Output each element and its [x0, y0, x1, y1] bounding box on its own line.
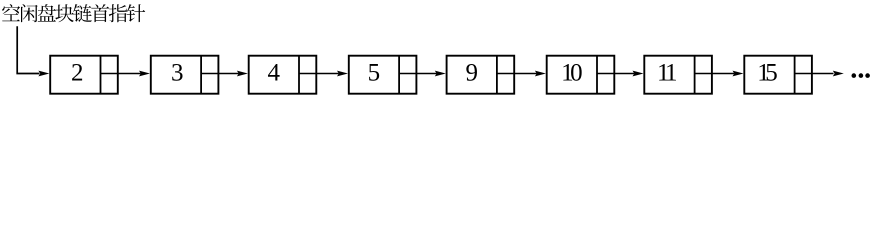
- node box 3: [151, 56, 219, 94]
- wire 5 to 9: [399, 71, 446, 77]
- svg-text:9: 9: [466, 60, 479, 87]
- wire 4 to 5: [299, 71, 348, 77]
- wire 11 to 15: [695, 71, 744, 77]
- head pointer wire: [17, 26, 39, 73]
- wire 15 to ellipsis: [795, 71, 844, 77]
- wire 10 to 11: [597, 71, 644, 77]
- node box 2: [50, 56, 118, 94]
- svg-text:5: 5: [765, 60, 778, 87]
- head pointer arrowhead: [38, 71, 49, 77]
- svg-text:1: 1: [665, 60, 678, 87]
- svg-text:5: 5: [368, 60, 381, 87]
- node box 5: [349, 56, 417, 94]
- node box 15: [744, 56, 812, 94]
- label: 空闲盘块链首指针 (free disk block chain head pointer): [2, 4, 145, 22]
- ellipsis: [852, 73, 870, 78]
- node box 11: [644, 56, 712, 94]
- svg-text:0: 0: [570, 60, 583, 87]
- diagram: free disk block linked list: [0, 0, 872, 114]
- node box 10: [547, 56, 615, 94]
- node box 9: [447, 56, 515, 94]
- svg-text:3: 3: [171, 60, 184, 87]
- svg-text:2: 2: [71, 60, 84, 87]
- node box 4: [249, 56, 317, 94]
- wire 3 to 4: [201, 71, 248, 77]
- svg-text:4: 4: [268, 60, 281, 87]
- wire 2 to 3: [101, 71, 151, 77]
- wire 9 to 10: [497, 71, 546, 77]
